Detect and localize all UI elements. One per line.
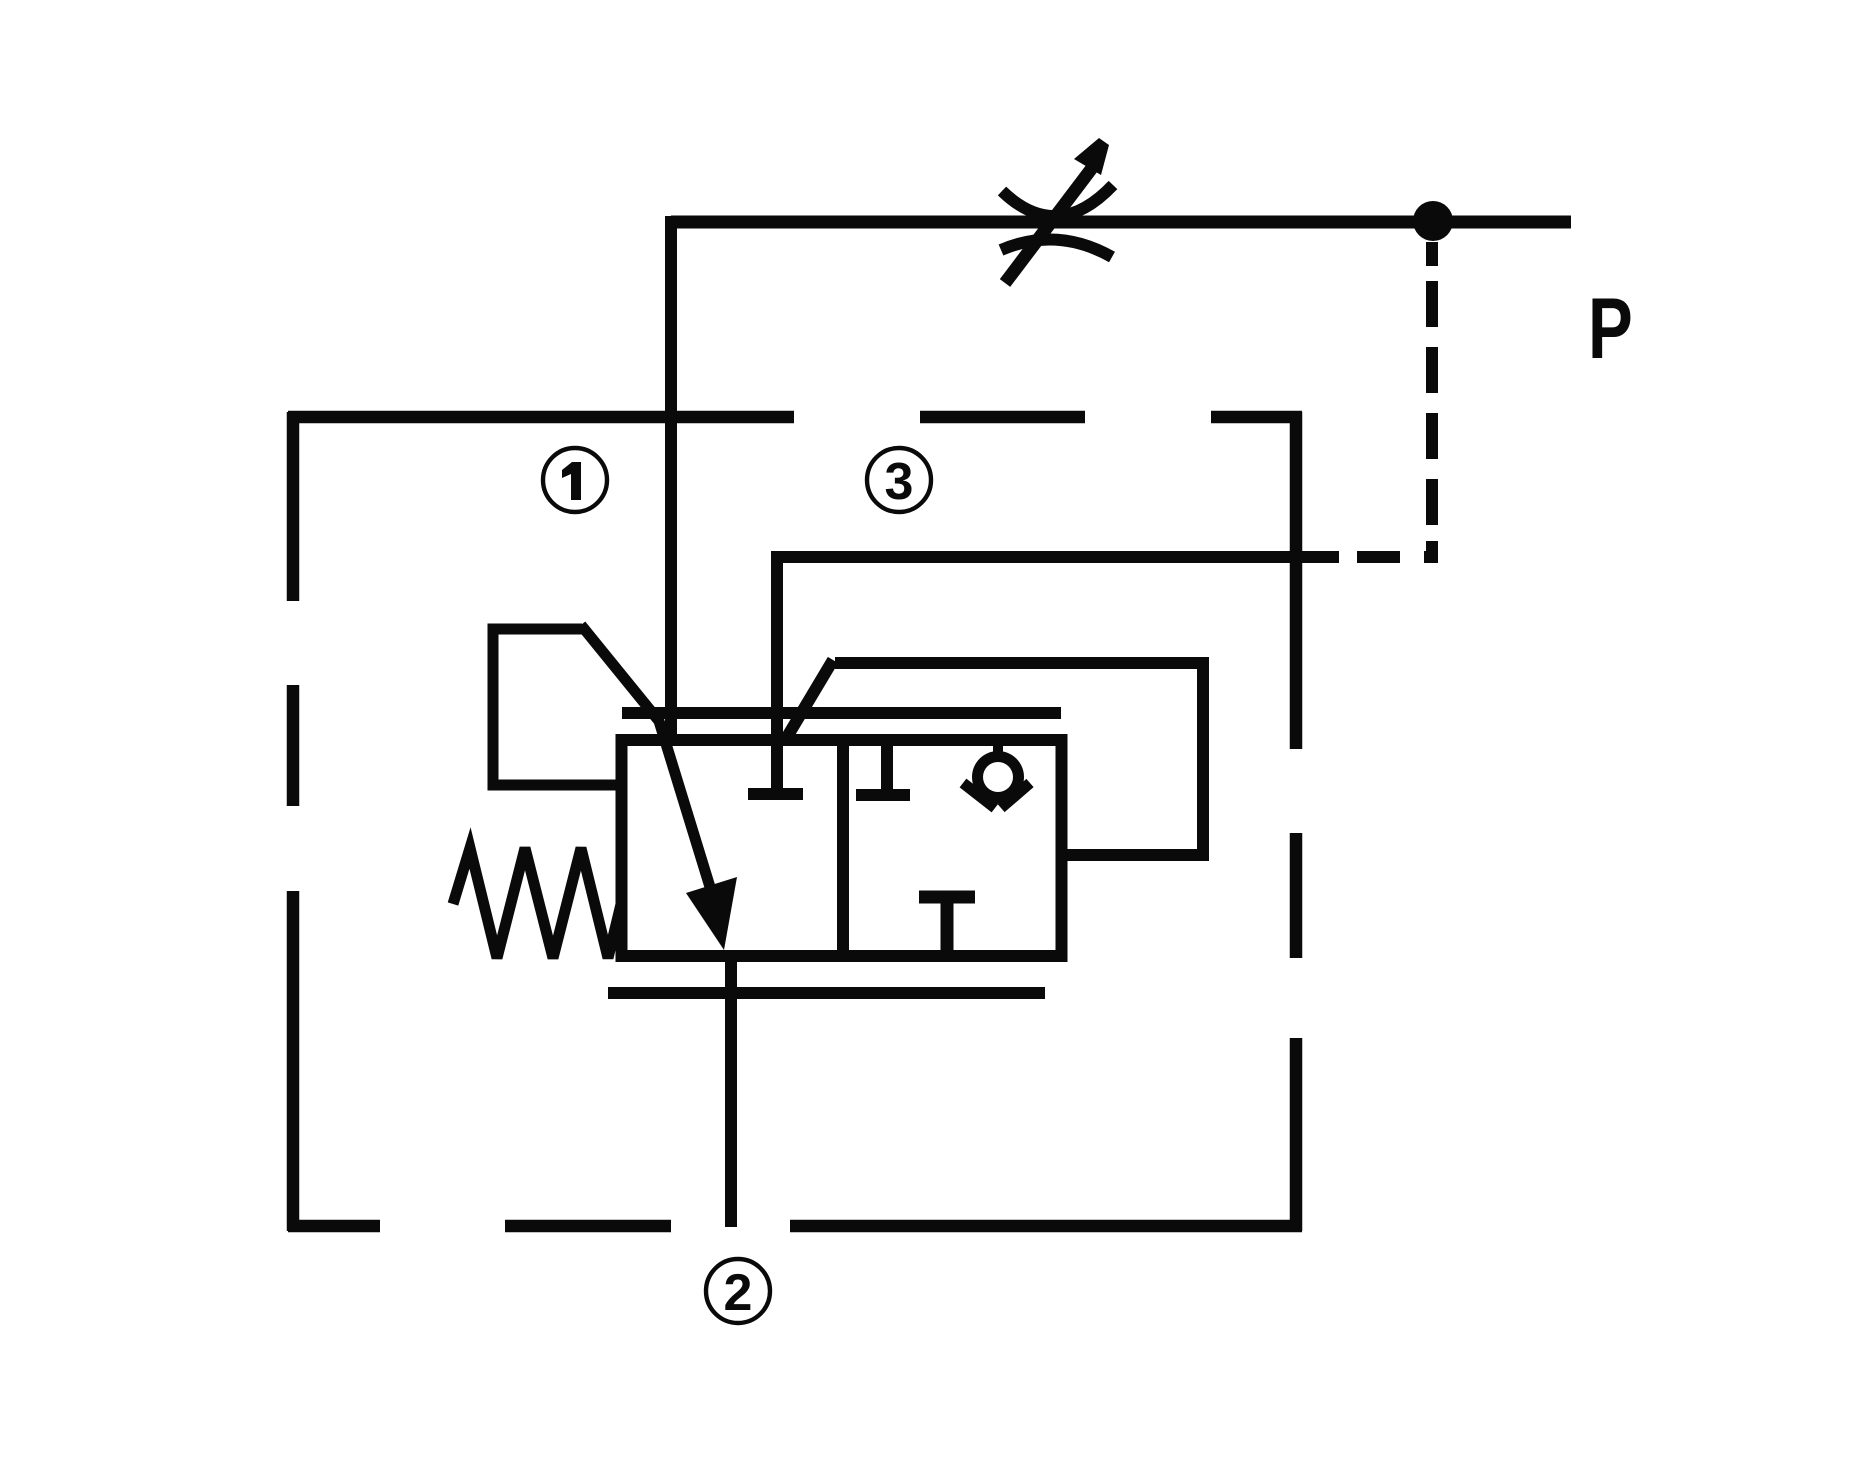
port number 1 bbox=[562, 462, 581, 500]
svg-text:2: 2 bbox=[724, 1264, 753, 1322]
spring bbox=[453, 848, 622, 958]
variable orifice FC1 arrowhead bbox=[1074, 138, 1109, 175]
wire: diagonal connector to loop bbox=[787, 660, 833, 737]
check valve CV1 ball seat bbox=[963, 751, 1030, 808]
port label circle 3 bbox=[867, 448, 931, 512]
blocked port T symbol (right box top) bbox=[856, 746, 910, 795]
variable orifice FC1 adjustment arrow shaft bbox=[1005, 168, 1092, 283]
envelope right edge (dashed) bbox=[1290, 412, 1303, 1231]
variable orifice FC1 upper arc bbox=[1002, 185, 1113, 216]
envelope top edge (dashed) bbox=[288, 411, 1302, 424]
wire: port 3 line with corner down to blocked port bbox=[777, 557, 1339, 788]
wire: right-side loop from valve top to right box side bbox=[835, 663, 1203, 855]
wire: vertical line from top line to valve port bbox=[665, 216, 677, 746]
blocked port inverted T (right box bottom) bbox=[919, 897, 975, 950]
check valve CV1 stem bbox=[993, 746, 1003, 757]
envelope bottom edge (dashed) bbox=[288, 1220, 1302, 1233]
upper stroke-limit line bbox=[622, 707, 1061, 719]
valve flow arrow diagonal bbox=[581, 625, 710, 887]
valve body V1 outline bbox=[622, 740, 1062, 956]
svg-text:P: P bbox=[1588, 281, 1633, 377]
wire: port 2 line bbox=[725, 956, 737, 1227]
svg-text:3: 3 bbox=[885, 453, 914, 511]
envelope left edge (dashed) bbox=[287, 412, 300, 1231]
valve body divider bbox=[837, 740, 849, 956]
port label circle 1 bbox=[543, 448, 607, 512]
variable orifice FC1 lower arc bbox=[1001, 240, 1112, 257]
junction node dot bbox=[1413, 201, 1453, 241]
blocked port T symbol (left box) bbox=[748, 788, 803, 800]
lower stroke-limit line bbox=[608, 987, 1045, 999]
valve flow arrowhead bbox=[686, 877, 737, 950]
pilot spring box (top-left) bbox=[493, 629, 621, 785]
pilot line P (dashed) bbox=[1357, 242, 1438, 563]
wire: top main pressure line bbox=[671, 216, 1571, 229]
port label circle 2 bbox=[706, 1259, 770, 1323]
